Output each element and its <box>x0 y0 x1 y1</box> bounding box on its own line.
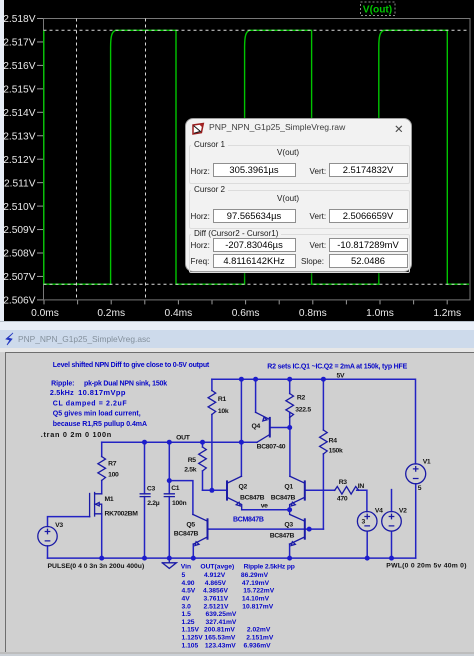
svg-text:BC847B: BC847B <box>270 533 295 540</box>
wire V3 top to M1 gate <box>48 517 90 527</box>
resistor R4 150k <box>320 430 328 454</box>
wire 5V rail <box>212 379 416 464</box>
junction 5V/R2 <box>287 377 292 382</box>
wire ve rail <box>242 509 290 511</box>
svg-text:V3: V3 <box>55 522 63 529</box>
title icon <box>191 122 206 135</box>
junction 5V/Q4 emitter <box>253 377 258 382</box>
svg-text:2.507V: 2.507V <box>3 272 35 283</box>
svg-text:R2 sets IC.Q1 ~IC.Q2 = 2mA at: R2 sets IC.Q1 ~IC.Q2 = 2mA at 150k, typ … <box>267 364 407 371</box>
wire base node to Q2 <box>203 489 228 491</box>
svg-text:100n: 100n <box>172 500 186 507</box>
wire C1 top <box>168 442 170 494</box>
svg-text:V1: V1 <box>423 459 431 466</box>
svg-text:10k: 10k <box>218 408 229 415</box>
junction Q3 base/R4 <box>307 527 312 532</box>
svg-text:0.6ms: 0.6ms <box>232 308 260 319</box>
svg-text:BC807-40: BC807-40 <box>257 443 286 450</box>
svg-text:1.105: 1.105 <box>182 642 199 649</box>
svg-text:2.518V: 2.518V <box>3 14 35 25</box>
wire C3 top <box>144 442 146 494</box>
svg-text:C3: C3 <box>147 486 156 493</box>
junction dots <box>99 377 394 561</box>
svg-text:2.514V: 2.514V <box>3 108 35 119</box>
svg-text:6.936mV: 6.936mV <box>244 642 272 649</box>
transistor Q3 BC847B (mirrored) <box>290 510 305 546</box>
svg-text:2.5k: 2.5k <box>184 466 197 473</box>
svg-text:2.515V: 2.515V <box>3 85 35 96</box>
wire R7 top <box>101 442 103 456</box>
svg-text:BC847B: BC847B <box>240 495 265 502</box>
junction ground/M1 source <box>99 556 104 561</box>
wire R5 vert <box>202 442 204 490</box>
junction OUT/R5 <box>200 440 205 445</box>
V(out) legend <box>361 2 396 16</box>
svg-text:R5: R5 <box>188 457 197 464</box>
svg-text:2.516V: 2.516V <box>3 61 35 72</box>
junction ground/C1 <box>167 556 172 561</box>
svg-text:R2: R2 <box>297 394 306 401</box>
svg-text:1.15V: 1.15V <box>182 627 200 634</box>
svg-text:2.2µ: 2.2µ <box>147 500 160 507</box>
svg-text:47.19mV: 47.19mV <box>242 580 270 587</box>
wire Q1 base to R3 <box>306 489 335 491</box>
voltage source V4 <box>357 512 377 532</box>
svg-text:2.02mV: 2.02mV <box>247 627 271 634</box>
group: Cursor 1 <box>189 145 410 184</box>
svg-text:R7: R7 <box>108 460 117 467</box>
svg-text:10.817mV: 10.817mV <box>242 603 273 610</box>
svg-text:639.25mV: 639.25mV <box>206 611 237 618</box>
nmos M1 RK7002BM <box>90 493 102 517</box>
wire Q4 emitter feed <box>255 379 257 412</box>
svg-text:Q5 gives min load current,: Q5 gives min load current, <box>53 411 141 418</box>
resistor R1 10k <box>208 391 216 415</box>
svg-text:2.512V: 2.512V <box>3 155 35 166</box>
svg-text:4.912V: 4.912V <box>204 572 226 579</box>
svg-text:Q4: Q4 <box>252 423 261 430</box>
svg-text:2.509V: 2.509V <box>3 225 35 236</box>
wire R7 to M1 drain <box>101 481 103 494</box>
svg-text:5: 5 <box>418 485 422 492</box>
svg-text:.tran 0 2m 0 100n: .tran 0 2m 0 100n <box>41 430 112 439</box>
wire Q3 emitter down <box>289 544 291 558</box>
wire V1 bottom <box>415 484 417 558</box>
resistor R7 100 <box>98 457 106 481</box>
transistor Q5 BC847B (mirrored) <box>193 514 208 545</box>
wire Q4 collector to OUT <box>241 441 257 443</box>
svg-text:1.0ms: 1.0ms <box>366 308 394 319</box>
plot border <box>44 19 471 300</box>
junction C1 top/Q5 collector <box>167 478 172 483</box>
svg-text:1.25: 1.25 <box>182 619 195 626</box>
voltage source V2 <box>382 512 402 532</box>
voltage source V3 <box>38 527 57 546</box>
svg-text:150k: 150k <box>329 448 343 455</box>
wire base bus Q5-Q3-R4 <box>209 528 324 530</box>
svg-text:123.43mV: 123.43mV <box>205 642 236 649</box>
svg-text:4.865V: 4.865V <box>205 580 227 587</box>
svg-text:0.2ms: 0.2ms <box>97 308 125 319</box>
comments (blue) <box>50 362 408 524</box>
svg-text:2.506V: 2.506V <box>3 296 35 307</box>
wire Q4 base <box>271 427 290 429</box>
component labels <box>55 373 431 540</box>
capacitor C1 100n <box>164 494 174 497</box>
transistor Q4 BC807-40 (PNP) <box>256 412 270 442</box>
group: Cursor 2 <box>189 190 410 229</box>
svg-text:V2: V2 <box>399 507 407 514</box>
svg-text:Ripple 2.5kHz pp: Ripple 2.5kHz pp <box>244 564 295 571</box>
x axis labels + ticks <box>31 308 461 319</box>
svg-text:Q2: Q2 <box>239 484 248 491</box>
wire R3 to IN corner, down to V4 <box>357 490 367 511</box>
wire C1 bottom <box>168 497 170 558</box>
svg-text:200.81mV: 200.81mV <box>204 627 235 634</box>
wire Q1 collector up <box>289 428 291 477</box>
svg-text:1.5: 1.5 <box>182 611 192 618</box>
wire R4 bottom <box>322 454 324 529</box>
svg-text:Level shifted NPN Diff to give: Level shifted NPN Diff to give close to … <box>53 362 210 369</box>
voltage source V1 <box>406 464 426 484</box>
svg-text:100: 100 <box>108 472 119 479</box>
svg-text:PULSE(0 4 0 3n 3n 200u 400u): PULSE(0 4 0 3n 3n 200u 400u) <box>48 563 145 570</box>
svg-text:because R1,R5 pullup 0.4mA: because R1,R5 pullup 0.4mA <box>53 421 147 428</box>
svg-text:Q1: Q1 <box>284 484 293 491</box>
svg-text:4.3856V: 4.3856V <box>203 588 228 595</box>
wire V3 bottom <box>47 546 49 558</box>
junction 5V/Q2 collector riser <box>239 377 244 382</box>
wire C3 bottom <box>144 497 146 558</box>
svg-text:CL damped = 2.2uF: CL damped = 2.2uF <box>53 400 128 407</box>
junction OUT/C1 <box>167 440 172 445</box>
svg-text:3: 3 <box>362 518 366 525</box>
svg-text:R3: R3 <box>339 479 348 486</box>
cursor dashed lines <box>44 19 468 300</box>
svg-text:15.722mV: 15.722mV <box>243 588 274 595</box>
svg-text:2.5kHz10.817mVpp: 2.5kHz10.817mVpp <box>50 388 126 397</box>
wire R4 top <box>322 379 324 430</box>
svg-text:R4: R4 <box>329 438 338 445</box>
svg-text:PWL(0 0 20m 5v 40m 0): PWL(0 0 20m 5v 40m 0) <box>386 563 466 570</box>
svg-text:2.5121V: 2.5121V <box>204 603 229 610</box>
svg-text:BC847B: BC847B <box>174 531 199 538</box>
svg-text:Vin: Vin <box>181 564 191 571</box>
V(out) trace <box>44 30 469 284</box>
junction ground/V4 <box>365 556 370 561</box>
group: Diff <box>189 234 410 273</box>
junction Q2 base/R1/R5 <box>209 488 214 493</box>
svg-text:4.90: 4.90 <box>182 580 195 587</box>
transistor Q1 BC847B (mirrored) <box>290 476 305 509</box>
svg-text:2.508V: 2.508V <box>3 249 35 260</box>
wire R2 bottom <box>289 413 291 428</box>
junction ground/Q5 emitter <box>191 556 196 561</box>
svg-text:R1: R1 <box>218 396 227 403</box>
svg-text:5V: 5V <box>337 373 345 380</box>
svg-text:2.511V: 2.511V <box>4 178 36 189</box>
svg-text:14.10mV: 14.10mV <box>242 596 270 603</box>
svg-text:ve: ve <box>261 503 268 510</box>
svg-text:2.513V: 2.513V <box>3 131 35 142</box>
svg-text:470: 470 <box>337 495 348 502</box>
capacitor C3 2.2u <box>140 494 150 497</box>
svg-text:0.0ms: 0.0ms <box>31 308 59 319</box>
svg-text:3.7611V: 3.7611V <box>204 596 229 603</box>
y axis labels + ticks <box>3 14 35 306</box>
svg-text:OUT: OUT <box>176 435 191 442</box>
svg-text:OUT(avge): OUT(avge) <box>200 564 234 571</box>
wire R2 top <box>289 379 291 393</box>
junction node ve <box>287 507 292 512</box>
svg-text:2.151mV: 2.151mV <box>246 635 274 642</box>
table of results (blue) <box>181 564 295 650</box>
svg-text:V4: V4 <box>375 507 383 514</box>
resistor R5 2.5k <box>199 447 207 471</box>
wire V2 top stub <box>391 490 393 512</box>
junction ground/V2 <box>389 556 394 561</box>
svg-text:Ripple:pk-pk Dual NPN sink, 15: Ripple:pk-pk Dual NPN sink, 150k <box>51 380 167 387</box>
svg-text:Q5: Q5 <box>186 522 195 529</box>
junction OUT/C3 <box>142 440 147 445</box>
ground <box>162 558 176 568</box>
wire Q5 emitter down <box>192 544 194 558</box>
junction ground/C3 <box>142 556 147 561</box>
resistor R2 322.5 <box>286 394 294 418</box>
junction OUT/Q4 collector <box>239 440 244 445</box>
svg-text:165.53mV: 165.53mV <box>205 635 236 642</box>
svg-text:322.5: 322.5 <box>295 407 311 414</box>
resistor R3 470 (horizontal) <box>335 487 359 495</box>
svg-text:V(out): V(out) <box>363 5 392 16</box>
svg-text:IN: IN <box>358 483 365 490</box>
svg-text:M1: M1 <box>105 496 114 503</box>
svg-text:0.8ms: 0.8ms <box>299 308 327 319</box>
transistor Q2 BC847B <box>227 476 242 509</box>
wire Q5 collector to C1 <box>169 481 193 515</box>
svg-text:BCM847B: BCM847B <box>233 517 264 524</box>
svg-text:0.4ms: 0.4ms <box>165 308 193 319</box>
directives <box>41 430 467 570</box>
wire R1 top <box>211 379 213 390</box>
wire 5V to Q2 collector <box>240 379 242 476</box>
svg-text:RK7002BM: RK7002BM <box>105 511 139 518</box>
svg-text:2.517V: 2.517V <box>3 38 35 49</box>
wire V4 bottom <box>366 531 368 558</box>
svg-text:86.29mV: 86.29mV <box>241 572 269 579</box>
junction ground/Q3 emitter <box>287 556 292 561</box>
svg-text:1.2ms: 1.2ms <box>433 308 461 319</box>
svg-text:5: 5 <box>182 572 186 579</box>
wire ground rail <box>48 557 416 559</box>
svg-text:4V: 4V <box>182 596 191 603</box>
wire OUT <box>102 441 242 443</box>
wire M1 source down <box>101 514 103 558</box>
svg-text:4.5V: 4.5V <box>182 588 196 595</box>
wire V2 bottom <box>391 531 393 558</box>
svg-text:1.125V: 1.125V <box>182 635 204 642</box>
svg-text:327.41mV: 327.41mV <box>206 619 237 626</box>
svg-text:C1: C1 <box>171 485 180 492</box>
svg-text:2.510V: 2.510V <box>3 202 35 213</box>
svg-text:Q3: Q3 <box>284 521 293 528</box>
junction 5V/R4 <box>321 377 326 382</box>
svg-text:3.0: 3.0 <box>182 603 192 610</box>
wire R1 bottom to base node <box>211 415 213 491</box>
svg-text:BC847B: BC847B <box>271 495 296 502</box>
junction Q4 base/R2/Q1 collector <box>287 425 292 430</box>
